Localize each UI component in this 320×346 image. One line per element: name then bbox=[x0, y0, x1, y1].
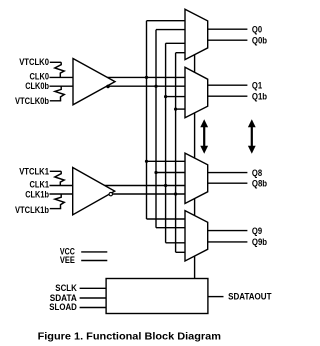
inversion bubble buffer U2 complementary output bbox=[109, 192, 112, 195]
svg-text:CLK1: CLK1 bbox=[30, 180, 50, 190]
wire bus CLK0 vertical bbox=[146, 21, 148, 219]
svg-text:CLK1b: CLK1b bbox=[25, 189, 49, 199]
wire mux3 input1 bbox=[147, 160, 186, 162]
wire VTCLK1b stub bbox=[50, 208, 61, 210]
wire CLK1b from input pin through buffer to mux3 input4 bbox=[50, 193, 186, 195]
wire Q8b output bbox=[208, 182, 248, 184]
mux M2 output Q1 bbox=[185, 67, 208, 117]
wire SCLK input bbox=[80, 287, 107, 289]
svg-text:Q1: Q1 bbox=[252, 80, 262, 90]
wire mux2 input4 bbox=[176, 108, 185, 110]
wire VTCLK1 stub bbox=[50, 170, 61, 172]
wire bus CLK1b vertical bbox=[175, 53, 177, 253]
wire CLK0 from input pin through buffer to mux2 input1 bbox=[50, 76, 186, 78]
wire mux4 input4 bbox=[176, 251, 185, 253]
resistor termination CLK1b-VTCLK1b bbox=[55, 194, 64, 209]
wire Q1b output bbox=[208, 95, 248, 97]
svg-text:VTCLK0: VTCLK0 bbox=[19, 57, 49, 67]
wire CLK1 from input pin through buffer to mux3 input3 bbox=[50, 185, 186, 187]
wire SDATA input bbox=[80, 297, 107, 299]
wire mux1 input2 (CLK0b net) bbox=[156, 29, 185, 31]
continuation arrow right bbox=[251, 126, 253, 147]
svg-text:SDATAOUT: SDATAOUT bbox=[228, 292, 272, 302]
junction bus CLK1b x mux2 input4 bbox=[174, 108, 177, 111]
svg-text:Q9b: Q9b bbox=[252, 237, 268, 247]
svg-text:VTCLK1b: VTCLK1b bbox=[15, 205, 49, 215]
wire CLK0b from input pin through buffer to mux2 input2 bbox=[50, 85, 186, 87]
wire VCC pin bbox=[81, 251, 107, 253]
wire mux1 input4 (CLK1b net) bbox=[176, 52, 185, 54]
wire Q0 output bbox=[208, 28, 248, 30]
svg-text:CLK0b: CLK0b bbox=[25, 81, 49, 91]
buffer U1 input receiver CLK0 bbox=[73, 59, 115, 105]
wire Q8 output bbox=[208, 172, 248, 174]
wire Q0b output bbox=[208, 39, 248, 41]
wire SLOAD input bbox=[80, 307, 107, 309]
inversion dot buffer U1 complementary output bbox=[106, 85, 110, 89]
wire mux2 input3 bbox=[166, 96, 185, 98]
wire mux4 input3 bbox=[166, 242, 185, 244]
wire VTCLK0b stub bbox=[50, 100, 61, 102]
svg-text:Q1b: Q1b bbox=[252, 91, 268, 101]
svg-text:VTCLK1: VTCLK1 bbox=[19, 167, 49, 177]
wire mux1 input3 (CLK1 net) bbox=[166, 42, 185, 44]
svg-text:VEE: VEE bbox=[60, 255, 75, 265]
svg-text:VTCLK0b: VTCLK0b bbox=[15, 96, 49, 106]
wire mux4 input1 bbox=[147, 218, 186, 220]
wire SDATAOUT output bbox=[208, 296, 224, 298]
wire mux select daisy line to serial port bbox=[194, 55, 196, 279]
svg-text:Q0: Q0 bbox=[252, 24, 262, 34]
wire Q1 output bbox=[208, 84, 248, 86]
wire VEE pin bbox=[81, 260, 107, 262]
wire mux1 input1 (CLK0 net) bbox=[147, 20, 186, 22]
wire Q9b output bbox=[208, 241, 248, 243]
svg-text:Q8: Q8 bbox=[252, 168, 262, 178]
continuation arrow left bbox=[203, 126, 205, 147]
junction bus CLK0 x buffer U1 output bbox=[145, 76, 148, 79]
wire bus CLK1 vertical bbox=[165, 43, 167, 243]
svg-text:Q9: Q9 bbox=[252, 226, 262, 236]
mux M4 output Q9 bbox=[185, 211, 208, 261]
resistor termination VTCLK1-CLK1 bbox=[55, 171, 64, 185]
svg-text:Q8b: Q8b bbox=[252, 178, 268, 188]
junction bus CLK1 x mux2 input3 bbox=[164, 95, 167, 98]
wire bus CLK0b vertical bbox=[155, 30, 157, 228]
wire mux4 input2 bbox=[156, 227, 185, 229]
junction bus CLK1 x buffer U2 output bbox=[164, 184, 167, 187]
junction bus CLK1b x buffer U2 output bbox=[174, 192, 177, 195]
junction bus CLK0 x mux3 input1 bbox=[145, 160, 148, 163]
svg-text:CLK0: CLK0 bbox=[30, 71, 50, 81]
junction bus CLK0b x buffer U1 output bbox=[154, 85, 157, 88]
mux M1 output Q0 bbox=[185, 9, 208, 59]
mux M3 output Q8 bbox=[185, 153, 208, 203]
resistor termination CLK0b-VTCLK0b bbox=[55, 86, 64, 101]
junction bus CLK0b x mux3 input2 bbox=[154, 171, 157, 174]
svg-text:Figure 1. Functional Block Dia: Figure 1. Functional Block Diagram bbox=[38, 331, 221, 342]
wire Q9 output bbox=[208, 230, 248, 232]
svg-text:SCLK: SCLK bbox=[55, 283, 77, 293]
svg-text:SLOAD: SLOAD bbox=[49, 302, 77, 312]
resistor termination VTCLK0-CLK0 bbox=[55, 62, 64, 77]
svg-text:Q0b: Q0b bbox=[252, 35, 268, 45]
serial control port block bbox=[106, 279, 208, 314]
wire VTCLK0 stub bbox=[50, 61, 61, 63]
buffer U2 input receiver CLK1 bbox=[73, 168, 115, 215]
wire mux3 input2 bbox=[156, 172, 185, 174]
